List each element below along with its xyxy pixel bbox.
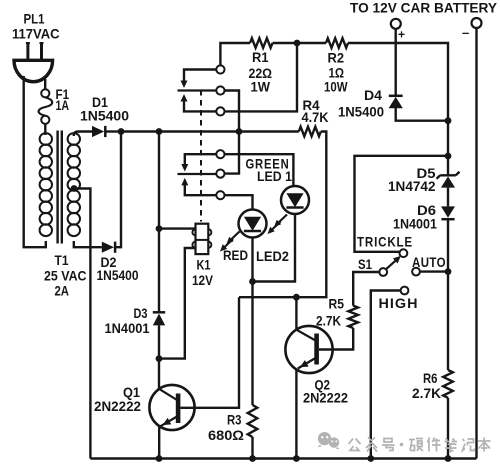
wire Q1 emitter to ground rail [158, 426, 160, 458]
wire Q2 base to R5 [319, 328, 353, 350]
wire fuse to primary top [44, 124, 46, 135]
svg-text:RED: RED [223, 247, 248, 263]
contact 1 terminal [216, 65, 224, 73]
svg-text:1N4001: 1N4001 [393, 216, 437, 232]
wire D1 to junction [105, 130, 121, 132]
svg-text:R2: R2 [328, 50, 345, 66]
wire top rail right [348, 43, 448, 175]
svg-text:1A: 1A [56, 97, 70, 113]
battery negative terminal [472, 18, 482, 28]
svg-text:10W: 10W [324, 79, 348, 95]
svg-text:1N5400: 1N5400 [338, 104, 384, 120]
svg-text:TRICKLE: TRICKLE [357, 234, 413, 250]
svg-text:R1: R1 [252, 49, 269, 65]
resistor R5 [348, 306, 358, 328]
diode D2 [102, 242, 116, 253]
wire rail to D3 [158, 132, 160, 313]
fuse F1 [39, 89, 53, 124]
wire plug-right to fuse [44, 79, 46, 89]
svg-text:2.7K: 2.7K [316, 313, 341, 329]
wire AUTO to divider [420, 270, 448, 272]
node sense/trickle [445, 153, 452, 160]
node rail R3 [249, 455, 256, 462]
label T1 [55, 252, 69, 268]
transistor Q1 [149, 385, 194, 430]
label 1N4001 (D6) [393, 216, 437, 232]
transformer T1 secondary winding [68, 133, 80, 236]
relay dashed link [200, 90, 202, 222]
svg-text:–: – [462, 25, 469, 40]
label 1N4742 [388, 178, 436, 194]
wire secondary top to D1 [74, 132, 92, 137]
svg-text:25 VAC: 25 VAC [44, 268, 87, 284]
label K1 [197, 257, 211, 273]
transformer T1 primary winding [40, 133, 52, 236]
node center tap [71, 185, 78, 192]
svg-text:117VAC: 117VAC [12, 26, 60, 42]
svg-text:1N4001: 1N4001 [105, 320, 150, 336]
LED2 light arrows [220, 232, 240, 252]
wire battery plus to D4 [395, 29, 397, 96]
diode D6 [441, 206, 455, 219]
node Q2 collector junction [293, 294, 300, 301]
node R1/R2 junction [294, 40, 301, 47]
contact AUTO terminal [412, 268, 420, 276]
node rail R6 [445, 455, 452, 462]
label D4 [364, 87, 382, 103]
label 1N5400 (D2) [97, 267, 139, 283]
label D5 [417, 165, 436, 181]
label 1N5400 (D1) [80, 108, 129, 124]
LED LED2 red [239, 210, 267, 238]
contact armature bar 2 [178, 173, 217, 175]
svg-text:R6: R6 [423, 370, 438, 386]
svg-text:D3: D3 [134, 305, 148, 321]
wire top rail mid [273, 42, 327, 44]
wire D2 to rectifier junction [115, 132, 121, 248]
arrowhead contact3 up [181, 94, 188, 102]
svg-text:AUTO: AUTO [412, 254, 446, 270]
label F1 [56, 86, 70, 102]
LED LED1 green [281, 186, 309, 214]
wire contactA to LED1 [225, 154, 294, 186]
svg-text:R5: R5 [329, 296, 345, 312]
wire contact2 to rail [225, 91, 240, 174]
wire center tap to common rail [74, 189, 90, 459]
watermark logo and text [318, 432, 491, 452]
label R6 [423, 370, 438, 386]
resistor R2 [326, 38, 348, 48]
label 1N4001 (D3) [105, 320, 150, 336]
wire HIGH to ground rail [371, 291, 401, 459]
label TRICKLE [357, 234, 413, 250]
svg-text:R3: R3 [227, 412, 242, 428]
label 2A [55, 283, 70, 299]
label Q2 [315, 377, 331, 393]
svg-text:1N5400: 1N5400 [80, 108, 129, 124]
label R2 [328, 50, 345, 66]
wire contact1 arm [184, 70, 216, 82]
contact HIGH terminal [401, 287, 409, 295]
wire rectified rail [121, 130, 299, 132]
svg-text:1N5400: 1N5400 [97, 267, 139, 283]
svg-text:K1: K1 [197, 257, 211, 273]
wire D4 anode to node [396, 108, 448, 121]
svg-text:1N4742: 1N4742 [388, 178, 436, 194]
label HIGH [379, 295, 419, 311]
wire contact3 to R1/R2 junction [225, 43, 298, 111]
label 25 VAC [44, 268, 87, 284]
plug PL1 body [14, 43, 53, 82]
node rail HIGH [367, 455, 374, 462]
svg-text:680Ω: 680Ω [208, 427, 244, 443]
relay coil K1 [192, 224, 211, 254]
node rail/K1 branch [156, 128, 163, 135]
label 1W [251, 79, 271, 95]
node D1/D2 junction [118, 128, 125, 135]
label R1 [252, 49, 269, 65]
wire Q1 base [180, 297, 239, 408]
arrowhead contact1 down [181, 81, 188, 89]
wire LED2 cathode to R3 [251, 238, 253, 406]
wire contact3 arm [184, 101, 216, 111]
label 2N2222 (Q1) [94, 398, 141, 414]
arrowhead contactC up [181, 178, 188, 186]
node AUTO junction [445, 268, 452, 275]
wire R3 to ground rail [251, 437, 253, 459]
node LED cathode junction [249, 278, 256, 285]
arrowhead contactA down [181, 164, 188, 172]
label S1 [358, 256, 372, 272]
wire D5 to D6 [447, 188, 449, 207]
label D6 [417, 202, 436, 218]
wire secondary bottom to D2 [74, 241, 102, 247]
svg-text:1W: 1W [251, 79, 271, 95]
diode D1 [92, 126, 105, 137]
svg-text:2.7K: 2.7K [412, 385, 441, 401]
svg-text:LED2: LED2 [256, 248, 289, 264]
label 2.7K (R6) [412, 385, 441, 401]
svg-text:+: + [398, 28, 405, 42]
svg-text:TO 12V CAR BATTERY: TO 12V CAR BATTERY [350, 1, 497, 16]
svg-text:2N2222: 2N2222 [303, 390, 348, 406]
svg-text:2N2222: 2N2222 [94, 398, 141, 414]
label LED2 [256, 248, 289, 264]
svg-text:4.7K: 4.7K [302, 109, 329, 125]
svg-text:2A: 2A [55, 283, 70, 299]
label PL1 [24, 11, 45, 27]
label 1ohm [329, 65, 345, 81]
wire LED1 cathode down [253, 214, 296, 282]
svg-text:12V: 12V [192, 272, 214, 288]
label 117VAC [12, 26, 60, 42]
label 2.7K (R5) [316, 313, 341, 329]
resistor R1 [250, 38, 273, 48]
wire plug-left to primary bottom [24, 76, 46, 247]
label plus [398, 28, 405, 42]
resistor R3 [248, 405, 258, 437]
wire D3 to Q1 collector [158, 325, 160, 389]
svg-text:T1: T1 [55, 252, 69, 268]
label 1N5400 (D4) [338, 104, 384, 120]
contact 3 terminal [216, 107, 224, 115]
battery positive terminal [391, 19, 401, 29]
contact C terminal [216, 191, 224, 199]
label D1 [92, 94, 108, 110]
contact TRICKLE terminal [400, 249, 408, 257]
label 10W [324, 79, 348, 95]
zener D5 [437, 172, 460, 188]
svg-text:PL1: PL1 [24, 11, 45, 27]
node K1/D3 top [156, 225, 163, 232]
svg-text:S1: S1 [358, 256, 372, 272]
label R5 [329, 296, 345, 312]
diode D4 [389, 96, 403, 109]
wire bottom rail [90, 457, 476, 459]
label RED [223, 247, 248, 263]
node K1/Q1 junction [156, 355, 163, 362]
label 2N2222 (Q2) [303, 390, 348, 406]
label Q1 [123, 384, 140, 400]
wire TRICKLE to sense node [355, 156, 449, 252]
wire contactC arm [185, 185, 217, 195]
label 4.7K [302, 109, 329, 125]
label R4 [303, 97, 320, 113]
transistor Q2 [285, 326, 332, 373]
label D3 [134, 305, 148, 321]
resistor R4 [299, 127, 321, 137]
wire contactC to LED2 [225, 195, 253, 209]
node rail Q1 emitter [156, 455, 163, 462]
label D2 [101, 254, 117, 270]
label LED 1 [257, 168, 292, 184]
node D4/sense [445, 117, 452, 124]
contact A terminal [216, 150, 224, 158]
wire Q2 collector [295, 297, 297, 330]
wire contactA arm [185, 154, 217, 164]
label 1A [56, 97, 70, 113]
wire R4 to Q1 base line [239, 132, 326, 298]
contact armature bar 1 [178, 89, 217, 91]
svg-text:LED 1: LED 1 [257, 168, 292, 184]
label minus [462, 25, 469, 40]
wire top rail left [220, 43, 250, 65]
switch S1 common [379, 268, 387, 276]
diode D3 [153, 312, 165, 325]
label R3 [227, 412, 242, 428]
label 680ohm [208, 427, 244, 443]
wire Q2 emitter to ground rail [295, 369, 297, 458]
label AUTO [412, 254, 446, 270]
svg-text:HIGH: HIGH [379, 295, 419, 311]
contact B terminal [216, 170, 224, 178]
node rail Q2 emitter [293, 455, 300, 462]
label GREEN [246, 156, 290, 172]
svg-text:D4: D4 [364, 87, 382, 103]
node rail/contact branch [236, 128, 243, 135]
wire K1 top terminal [159, 227, 196, 229]
transformer T1 core [58, 131, 62, 244]
label TO 12V CAR BATTERY [350, 1, 497, 16]
LED1 light arrows [268, 215, 288, 235]
switch S1 arm [386, 256, 401, 269]
label 12V [192, 272, 214, 288]
wire K1 bottom terminal [159, 248, 196, 359]
wire R5 to S1 common [353, 272, 379, 306]
wire negative terminal down [475, 28, 477, 459]
label 22ohm [249, 65, 273, 81]
resistor R6 [443, 370, 453, 398]
wire D6 to AUTO node [447, 219, 449, 370]
contact 2 terminal [216, 86, 224, 94]
wire R6 to ground rail [447, 398, 449, 459]
